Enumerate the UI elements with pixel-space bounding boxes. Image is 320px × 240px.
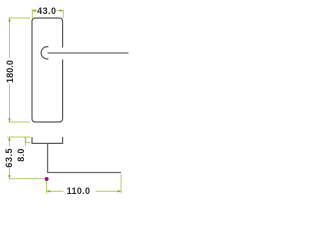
svg-text:8.0: 8.0 (16, 148, 26, 161)
svg-text:180.0: 180.0 (5, 60, 15, 83)
svg-text:63.5: 63.5 (4, 148, 14, 168)
svg-text:43.0: 43.0 (37, 6, 56, 16)
svg-text:110.0: 110.0 (67, 186, 91, 196)
